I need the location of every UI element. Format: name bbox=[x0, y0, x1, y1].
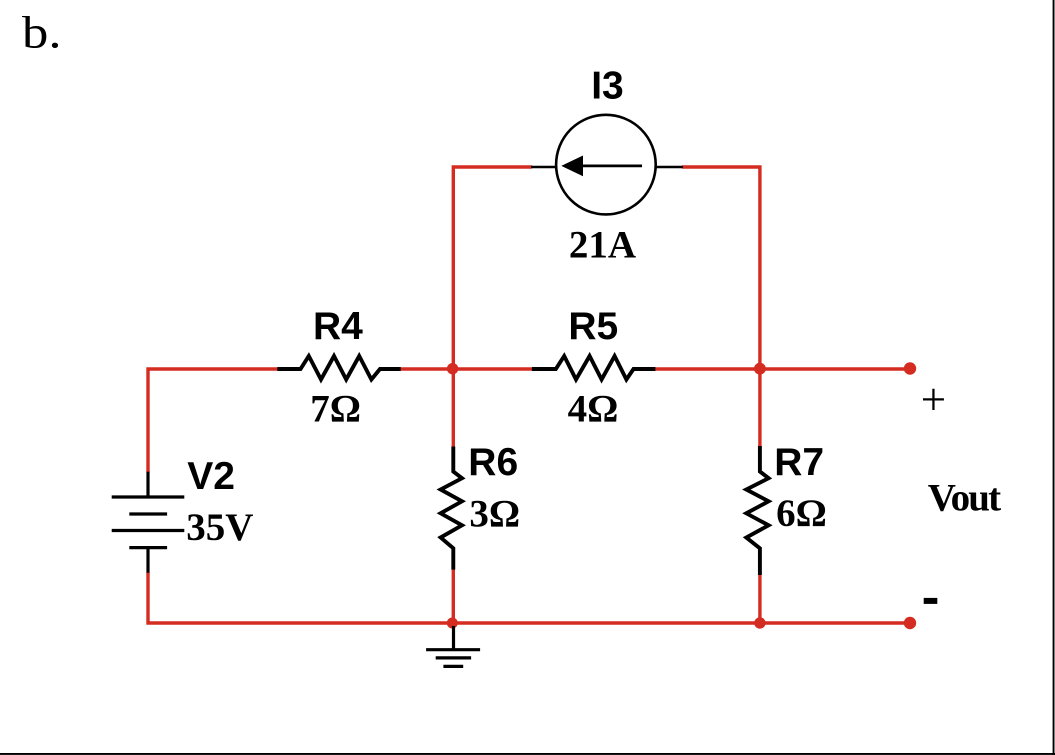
svg-text:7Ω: 7Ω bbox=[310, 387, 361, 430]
svg-text:R5: R5 bbox=[568, 305, 618, 348]
svg-text:R7: R7 bbox=[774, 441, 824, 484]
svg-text:21A: 21A bbox=[569, 224, 636, 267]
svg-text:R6: R6 bbox=[468, 441, 518, 484]
svg-text:35V: 35V bbox=[186, 506, 253, 549]
svg-text:V2: V2 bbox=[187, 455, 235, 498]
svg-text:6Ω: 6Ω bbox=[776, 492, 827, 535]
svg-text:3Ω: 3Ω bbox=[469, 493, 520, 536]
svg-text:Vout: Vout bbox=[928, 477, 1001, 520]
svg-text:4Ω: 4Ω bbox=[568, 387, 619, 430]
svg-text:I3: I3 bbox=[591, 65, 624, 108]
svg-text:b.: b. bbox=[22, 7, 62, 58]
svg-text:R4: R4 bbox=[313, 305, 363, 348]
svg-text:+: + bbox=[921, 374, 946, 424]
